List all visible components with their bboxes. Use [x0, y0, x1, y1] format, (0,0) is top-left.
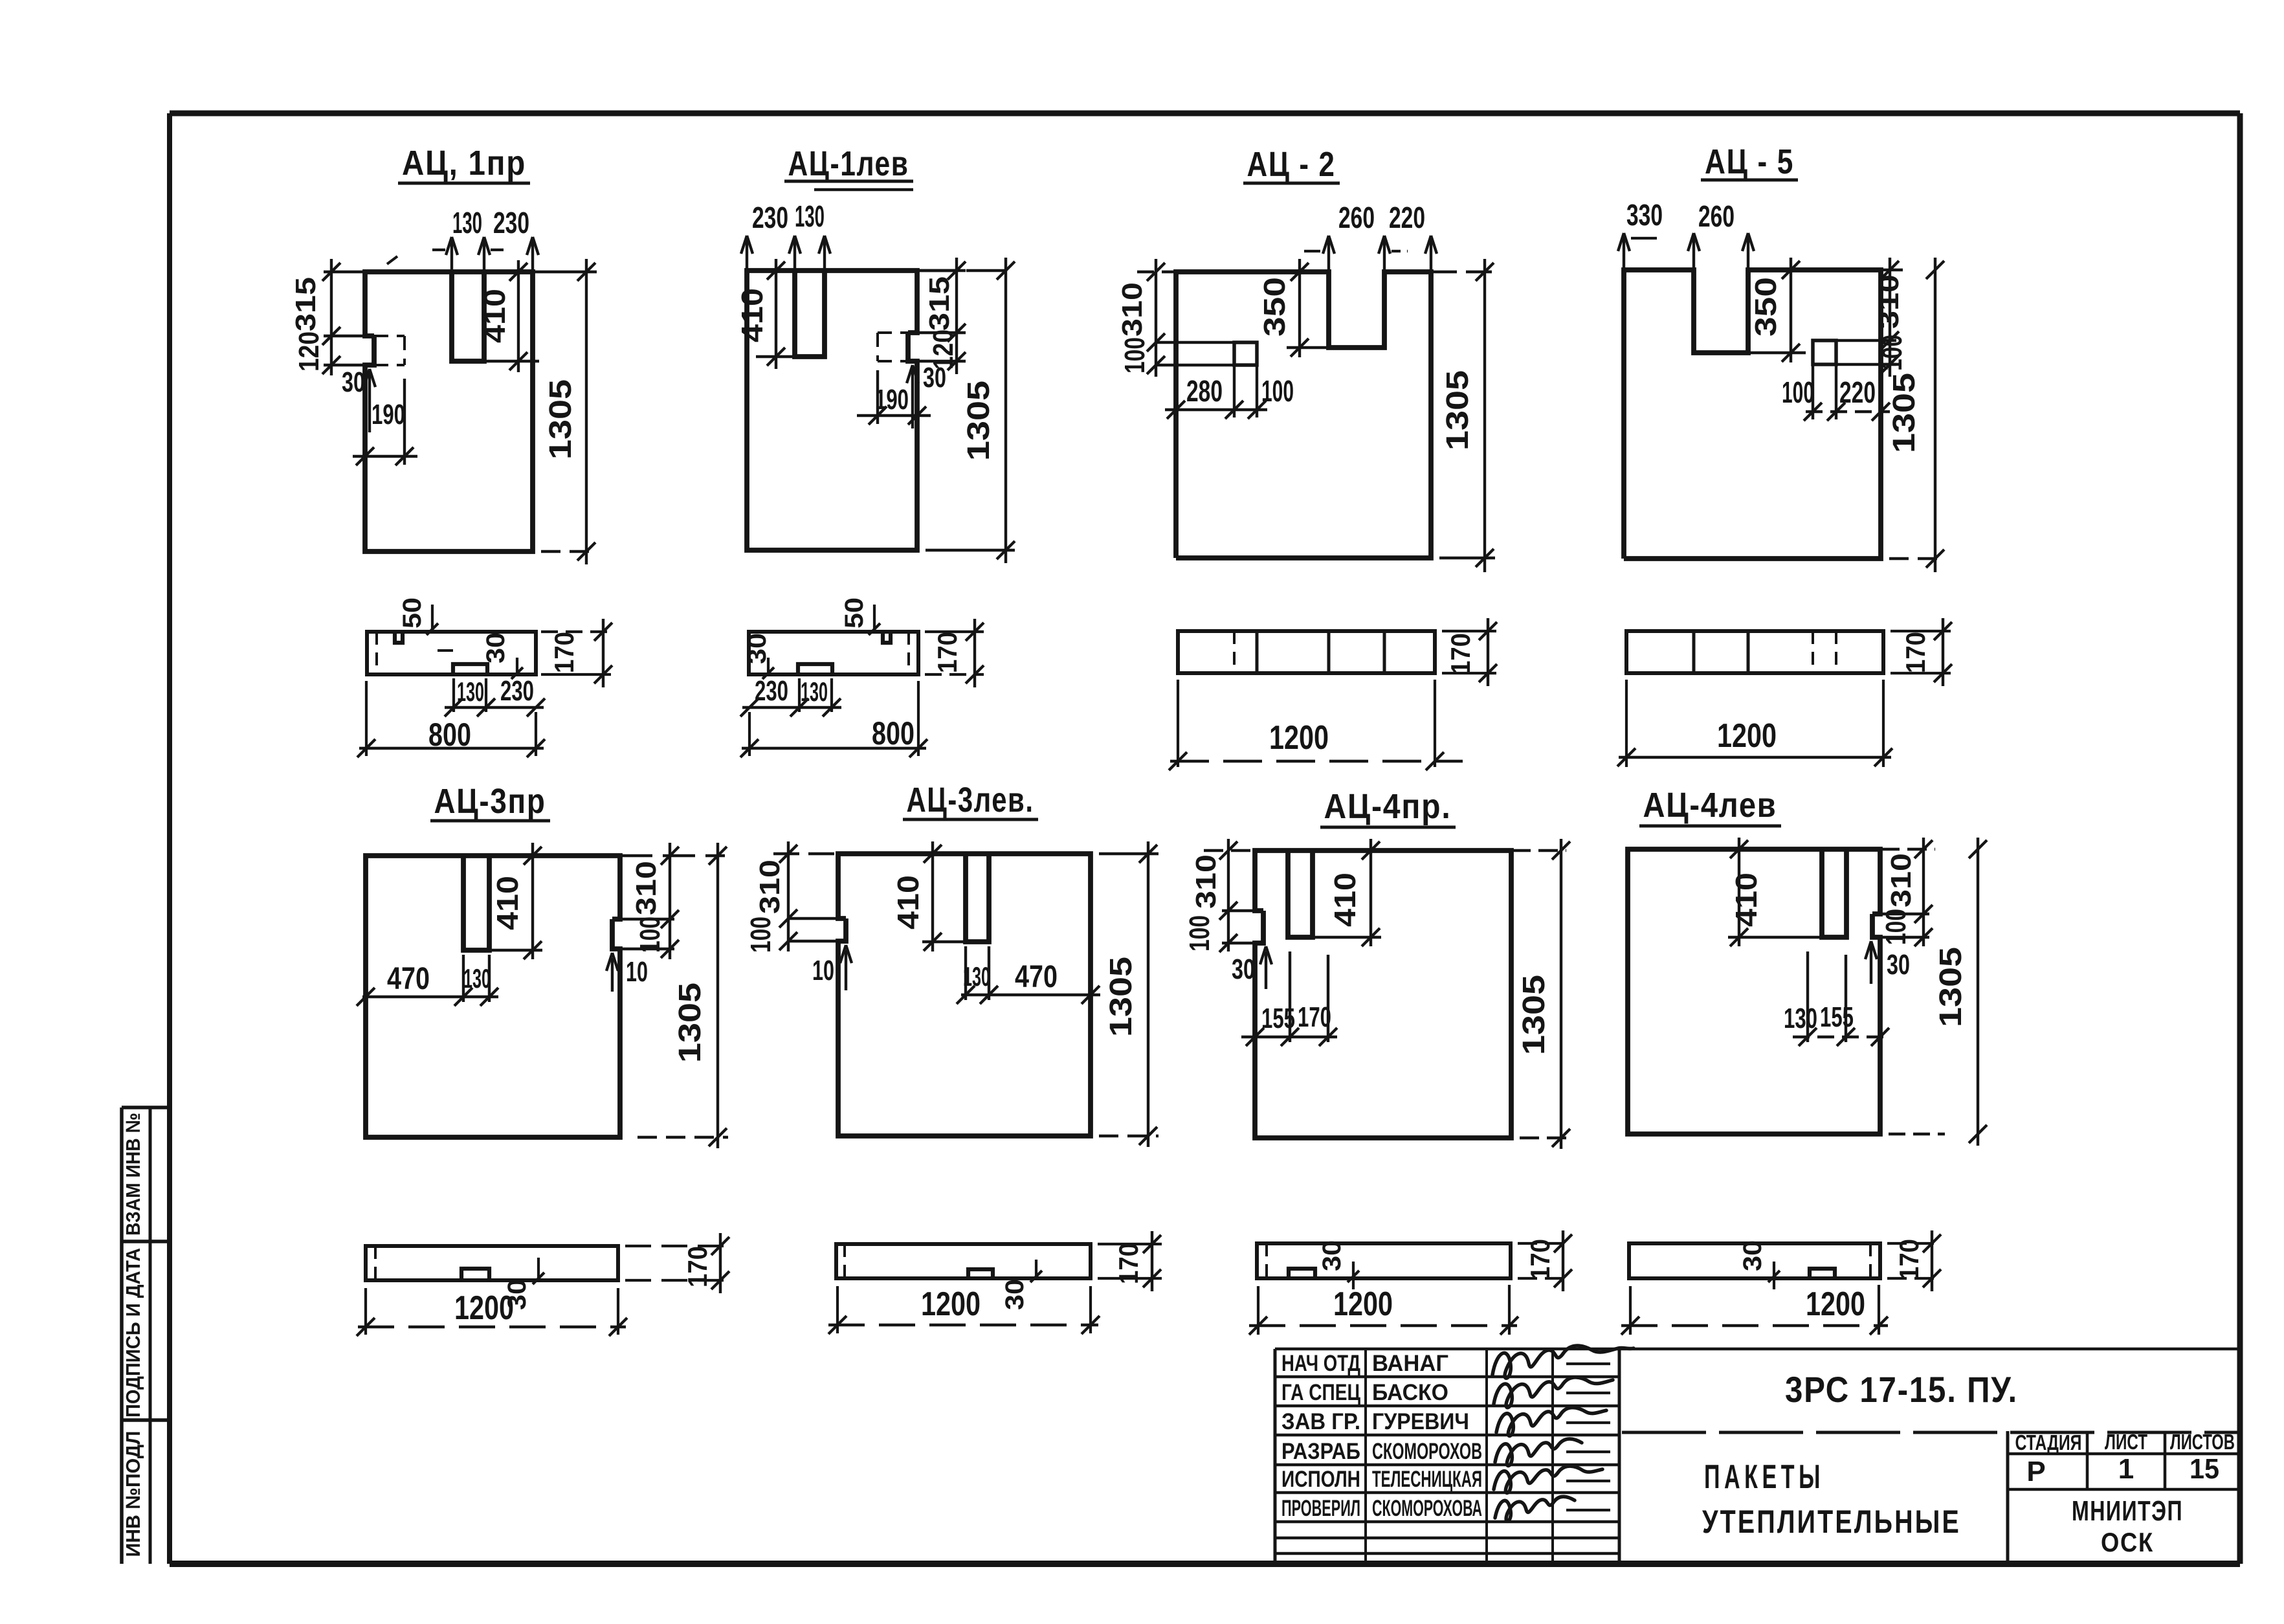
svg-text:220: 220	[1389, 201, 1425, 234]
dim 30 bar АЦ-3лев	[1001, 1260, 1042, 1310]
dim 310 100 left of АЦ-2	[1116, 259, 1234, 377]
dim 30 step АЦ-1лев	[907, 362, 946, 428]
svg-text:350: 350	[1258, 277, 1291, 337]
panel title АЦ-4лев	[1639, 786, 1781, 826]
signature squiggle row 2	[1494, 1377, 1613, 1408]
stage table values Р 1 15	[2026, 1453, 2219, 1487]
svg-text:УТЕПЛИТЕЛЬНЫЕ: УТЕПЛИТЕЛЬНЫЕ	[1702, 1504, 1961, 1540]
staff row НАЧ ОТД ВАНАГ	[1281, 1351, 1448, 1376]
svg-text:310: 310	[1190, 854, 1222, 909]
svg-text:190: 190	[875, 384, 909, 416]
svg-text:410: 410	[891, 875, 925, 929]
dim 10 notch АЦ-3пр	[606, 953, 648, 992]
panel АЦ-1лев hidden slot dashed	[878, 333, 908, 361]
svg-text:ТЕЛЕСНИЦКАЯ: ТЕЛЕСНИЦКАЯ	[1372, 1467, 1482, 1492]
svg-text:СКОМОРОХОВА: СКОМОРОХОВА	[1372, 1496, 1482, 1521]
svg-text:1200: 1200	[921, 1285, 981, 1323]
dim 170 bar АЦ-4пр	[1518, 1230, 1572, 1291]
svg-text:1305: 1305	[1441, 370, 1475, 450]
dim 100 220 below square АЦ-5	[1782, 364, 1890, 421]
svg-text:260: 260	[1338, 201, 1375, 234]
svg-text:350: 350	[1749, 277, 1782, 337]
panel title АЦ-5	[1701, 142, 1798, 181]
dim 1305 height АЦ-1пр	[533, 259, 597, 564]
svg-text:410: 410	[1328, 873, 1362, 927]
svg-text:130: 130	[795, 199, 825, 233]
svg-text:410: 410	[478, 289, 511, 343]
svg-text:1305: 1305	[1517, 975, 1551, 1055]
svg-text:ЛИСТОВ: ЛИСТОВ	[2170, 1430, 2235, 1454]
panel АЦ-4пр top slot	[1288, 851, 1313, 937]
stamp label ИНВ № ПОДЛ	[122, 1431, 144, 1557]
dim 30 notch АЦ-4пр	[1232, 946, 1272, 989]
dim 30 bar АЦ-4лев	[1738, 1240, 1780, 1289]
svg-text:ИСПОЛН: ИСПОЛН	[1281, 1467, 1360, 1492]
svg-text:ЛИСТ: ЛИСТ	[2105, 1430, 2147, 1454]
svg-text:30: 30	[342, 366, 365, 398]
dim 130 155 АЦ-4лев	[1784, 951, 1891, 1046]
dim 310 100 left notch АЦ-4пр	[1184, 839, 1263, 952]
dim 190 АЦ-1пр	[353, 379, 417, 465]
svg-text:170: 170	[1113, 1243, 1144, 1284]
bar АЦ-1лев side view 800x170	[749, 632, 918, 674]
dim 230 130 below bar АЦ-1лев	[740, 675, 841, 717]
svg-text:1305: 1305	[1934, 947, 1968, 1027]
panel АЦ-2 square hole 100x100	[1234, 342, 1257, 365]
svg-text:АЦ - 2: АЦ - 2	[1247, 145, 1336, 184]
dim 1200 below bar АЦ-2	[1169, 680, 1463, 770]
svg-text:190: 190	[371, 399, 405, 430]
svg-text:СКОМОРОХОВ: СКОМОРОХОВ	[1372, 1439, 1482, 1464]
svg-text:3РС 17-15. ПУ.: 3РС 17-15. ПУ.	[1785, 1369, 2018, 1410]
svg-text:170: 170	[682, 1246, 713, 1287]
dim 1305 height АЦ-5	[1887, 258, 1945, 572]
svg-text:130: 130	[457, 676, 484, 707]
signature squiggle row 6	[1495, 1496, 1575, 1521]
panel АЦ-5 outline with top notch	[1624, 270, 1881, 559]
dim 1305 height АЦ-1лев	[917, 258, 1015, 563]
dim 1305 height АЦ-3пр	[638, 843, 728, 1148]
title block staff table grid	[1275, 1349, 1619, 1564]
date dashes column	[1566, 1364, 1610, 1510]
signature squiggle row 5	[1494, 1466, 1602, 1493]
svg-text:30: 30	[743, 633, 771, 664]
dim 130 470 below slot АЦ-3лев	[957, 946, 1100, 1004]
svg-text:30: 30	[1318, 1240, 1346, 1271]
svg-text:АЦ-1лев: АЦ-1лев	[788, 144, 909, 183]
svg-text:310: 310	[1873, 274, 1905, 329]
svg-text:170: 170	[1298, 1001, 1331, 1033]
dim 30 bar АЦ-3пр	[503, 1258, 544, 1310]
panel АЦ-1пр outline with left notch	[365, 272, 533, 551]
dim 350 notch depth АЦ-2	[1258, 259, 1329, 357]
dim 50 bar АЦ-1пр	[398, 597, 438, 635]
svg-text:ОСК: ОСК	[2101, 1527, 2154, 1557]
svg-text:260: 260	[1698, 199, 1735, 233]
svg-text:30: 30	[482, 632, 510, 663]
dim 1200 below bar АЦ-3лев	[828, 1285, 1100, 1334]
svg-text:170: 170	[1894, 1239, 1924, 1280]
svg-text:1: 1	[2118, 1453, 2134, 1485]
svg-text:АЦ-3лев.: АЦ-3лев.	[907, 781, 1034, 819]
staff row ГА СПЕЦ БАСКО	[1281, 1380, 1448, 1405]
staff row ИСПОЛН ТЕЛЕСНИЦКАЯ	[1281, 1467, 1482, 1492]
panel АЦ-1лев outline with right notch	[747, 271, 917, 550]
dim 1200 below bar АЦ-3пр	[357, 1288, 627, 1336]
svg-text:ИНВ №ПОДЛ: ИНВ №ПОДЛ	[122, 1431, 144, 1557]
svg-text:10: 10	[626, 956, 648, 988]
dim 410 slot depth АЦ-1пр	[478, 260, 539, 372]
signature squiggle row 3	[1496, 1408, 1606, 1436]
dim 190 АЦ-1лев	[857, 370, 931, 425]
panel title АЦ, 1пр	[398, 144, 530, 183]
svg-text:315: 315	[924, 276, 955, 331]
svg-text:155: 155	[1261, 1003, 1295, 1034]
svg-text:800: 800	[428, 717, 471, 753]
panel АЦ-3лев top slot	[966, 854, 989, 942]
bar АЦ-4пр side view 1200x170	[1257, 1243, 1511, 1278]
svg-text:315: 315	[290, 277, 322, 331]
svg-text:РАЗРАБ: РАЗРАБ	[1281, 1439, 1360, 1464]
svg-text:470: 470	[387, 962, 430, 996]
dim 50 bar АЦ-1лев	[840, 597, 880, 635]
svg-text:100: 100	[1782, 375, 1814, 409]
svg-text:410: 410	[1729, 873, 1763, 927]
panel АЦ-4лев top slot	[1822, 849, 1846, 937]
staff row РАЗРАБ СКОМОРОХОВ	[1281, 1439, 1482, 1464]
svg-text:1305: 1305	[1887, 373, 1922, 453]
svg-text:1305: 1305	[673, 983, 707, 1063]
svg-text:410: 410	[735, 288, 769, 342]
dim 170 bar АЦ-2	[1442, 618, 1497, 686]
dim 30 step АЦ-1пр	[342, 366, 375, 432]
left margin stamp boxes	[122, 1107, 170, 1564]
svg-text:30: 30	[923, 362, 946, 394]
dim 30 bar АЦ-1лев	[743, 633, 774, 679]
svg-text:1200: 1200	[1717, 717, 1777, 755]
panel title АЦ-1лев	[784, 144, 913, 190]
stamp label ПОДПИСЬ И ДАТА	[122, 1248, 144, 1418]
svg-text:100: 100	[634, 917, 666, 953]
bar АЦ-3пр side view 1200x170	[366, 1246, 618, 1280]
svg-text:1305: 1305	[1104, 957, 1138, 1037]
svg-text:100: 100	[1880, 909, 1912, 945]
dim 30 notch АЦ-4лев	[1865, 941, 1910, 984]
svg-text:330: 330	[1626, 198, 1663, 232]
dim 1200 below bar АЦ-5	[1617, 680, 1892, 767]
dim 800 below bar АЦ-1лев	[740, 681, 927, 757]
svg-text:170: 170	[1900, 632, 1931, 673]
svg-text:310: 310	[1885, 853, 1917, 907]
panel АЦ-1пр hidden slot dashed	[374, 336, 405, 365]
svg-text:230: 230	[752, 201, 788, 234]
panel АЦ-1лев top slot	[795, 271, 825, 357]
dim 155 170 АЦ-4пр	[1241, 951, 1337, 1046]
svg-text:130: 130	[801, 676, 828, 707]
staff row ПРОВЕРИЛ СКОМОРОХОВА	[1281, 1496, 1482, 1521]
svg-text:310: 310	[754, 860, 786, 914]
svg-text:ВЗАМ ИНВ №: ВЗАМ ИНВ №	[122, 1113, 144, 1236]
panel АЦ-3пр outline with right notch	[366, 856, 620, 1137]
svg-text:Р: Р	[2026, 1456, 2045, 1487]
panel title АЦ-3пр	[430, 782, 550, 821]
dim 350 notch depth АЦ-5	[1748, 258, 1806, 362]
signature squiggle row 4	[1495, 1439, 1582, 1466]
dim 1200 below bar АЦ-4пр	[1249, 1285, 1518, 1335]
dim 410 slot depth АЦ-4пр	[1313, 839, 1381, 946]
svg-text:280: 280	[1186, 374, 1223, 408]
svg-text:100: 100	[1119, 337, 1151, 373]
bar АЦ-1пр side view 800x170	[367, 632, 536, 674]
svg-text:130: 130	[1784, 1003, 1817, 1034]
dim 1305 height АЦ-4пр	[1511, 839, 1573, 1149]
dim 230 130 above АЦ-1лев	[741, 199, 830, 271]
dim 260 220 above АЦ-2	[1304, 201, 1437, 272]
dim 1305 height АЦ-2	[1431, 259, 1495, 572]
staff row ЗАВ ГР. ГУРЕВИЧ	[1281, 1409, 1469, 1434]
svg-text:100: 100	[1876, 335, 1908, 371]
svg-text:БАСКО: БАСКО	[1372, 1380, 1448, 1405]
svg-text:100: 100	[1184, 915, 1215, 951]
svg-text:АЦ-4лев: АЦ-4лев	[1643, 786, 1777, 825]
svg-text:155: 155	[1820, 1001, 1854, 1033]
bar АЦ-3лев side view 1200x170	[836, 1244, 1091, 1278]
svg-text:1200: 1200	[1806, 1285, 1865, 1323]
dim 130 230 below bar АЦ-1пр	[445, 675, 545, 717]
svg-text:1305: 1305	[544, 379, 578, 460]
dim 800 below bar АЦ-1пр	[357, 681, 545, 757]
svg-text:ЗАВ ГР.: ЗАВ ГР.	[1281, 1409, 1360, 1434]
dim 170 bar АЦ-5	[1890, 618, 1952, 686]
svg-text:170: 170	[549, 632, 579, 673]
svg-text:АЦ - 5: АЦ - 5	[1705, 142, 1794, 181]
dim 470 130 below slot АЦ-3пр	[357, 955, 498, 1006]
svg-text:ПРОВЕРИЛ: ПРОВЕРИЛ	[1281, 1496, 1360, 1521]
dim 170 bar АЦ-1лев	[925, 619, 984, 687]
svg-text:170: 170	[1525, 1239, 1555, 1280]
svg-text:310: 310	[630, 861, 662, 915]
sheet name УТЕПЛИТЕЛЬНЫЕ	[1702, 1504, 1961, 1540]
sheet name ПАКЕТЫ	[1704, 1458, 1824, 1496]
svg-text:ГУРЕВИЧ: ГУРЕВИЧ	[1372, 1409, 1469, 1434]
svg-text:100: 100	[1261, 374, 1294, 408]
dim 10 notch АЦ-3лев	[812, 945, 852, 990]
panel АЦ-1пр top slot 130 wide	[452, 272, 484, 361]
dim 170 bar АЦ-1пр	[541, 619, 612, 687]
svg-text:ПОДПИСЬ И ДАТА: ПОДПИСЬ И ДАТА	[122, 1248, 144, 1418]
svg-text:ГА СПЕЦ: ГА СПЕЦ	[1281, 1380, 1360, 1405]
panel title АЦ-4пр.	[1320, 787, 1456, 827]
svg-text:800: 800	[872, 715, 915, 751]
svg-text:30: 30	[1738, 1240, 1767, 1271]
dim 1200 below bar АЦ-4лев	[1621, 1285, 1888, 1335]
dim 410 slot depth АЦ-4лев	[1728, 838, 1822, 946]
signature squiggle row 1	[1492, 1346, 1634, 1378]
svg-text:220: 220	[1839, 375, 1876, 409]
svg-text:170: 170	[932, 632, 962, 673]
dim 30 bar АЦ-1пр	[438, 632, 523, 679]
panel АЦ-2 outline with top notch	[1176, 272, 1431, 558]
svg-text:СТАДИЯ: СТАДИЯ	[2015, 1430, 2082, 1454]
svg-text:15: 15	[2190, 1453, 2219, 1485]
organization МНИИТЭП ОСК	[2072, 1495, 2183, 1557]
title block divider line	[1622, 1431, 2239, 1434]
bar АЦ-4лев side view 1200x170	[1629, 1243, 1880, 1278]
dim 330 260 above АЦ-5	[1618, 198, 1754, 270]
stage sheet table	[2008, 1431, 2240, 1564]
dim 170 bar АЦ-3лев	[1098, 1231, 1162, 1291]
dim 310 100 right notch АЦ-3пр	[612, 843, 725, 959]
svg-text:230: 230	[755, 675, 788, 707]
svg-text:230: 230	[493, 206, 529, 239]
dim 170 bar АЦ-4лев	[1887, 1230, 1942, 1291]
svg-text:ПАКЕТЫ: ПАКЕТЫ	[1704, 1458, 1824, 1496]
dim 310 100 right notch АЦ-4лев	[1872, 838, 1935, 946]
svg-text:АЦ-4пр.: АЦ-4пр.	[1324, 787, 1452, 826]
dim 310 100 left notch АЦ-3лев	[745, 841, 846, 953]
bar АЦ-5 side view 1200x170	[1626, 631, 1883, 673]
svg-text:470: 470	[1015, 960, 1058, 994]
panel АЦ-4пр outline with left notch	[1255, 851, 1511, 1138]
svg-text:1200: 1200	[454, 1289, 514, 1327]
stage table headers	[2015, 1430, 2235, 1454]
stamp label ВЗАМ ИНВ №	[122, 1113, 144, 1236]
svg-text:120: 120	[293, 331, 325, 372]
svg-text:130: 130	[463, 963, 491, 994]
svg-text:10: 10	[812, 955, 834, 986]
svg-text:410: 410	[491, 876, 524, 930]
panel title АЦ-2	[1243, 145, 1340, 184]
svg-text:АЦ, 1пр: АЦ, 1пр	[402, 144, 526, 183]
svg-text:30: 30	[1001, 1279, 1029, 1310]
dim 410 slot depth АЦ-1лев	[735, 259, 795, 369]
svg-text:МНИИТЭП: МНИИТЭП	[2072, 1495, 2183, 1527]
svg-text:1200: 1200	[1269, 719, 1329, 757]
svg-text:АЦ-3пр: АЦ-3пр	[434, 782, 546, 821]
panel АЦ-3лев outline with left notch	[838, 854, 1091, 1136]
dim 410 slot depth АЦ-3лев	[891, 841, 966, 951]
panel АЦ-5 square hole	[1813, 340, 1836, 364]
dim 30 bar АЦ-4пр	[1318, 1240, 1359, 1289]
dim 1305 height АЦ-3лев	[1099, 841, 1159, 1147]
dim 280 100 below square АЦ-2	[1165, 365, 1294, 419]
dim 170 bar АЦ-3пр	[625, 1233, 729, 1293]
dim 130 230 above АЦ-1пр	[432, 206, 538, 272]
svg-text:50: 50	[398, 597, 427, 628]
svg-text:НАЧ ОТД: НАЧ ОТД	[1281, 1351, 1360, 1376]
dim 1305 height АЦ-4лев	[1889, 838, 1987, 1146]
dim 310 100 right of АЦ-5	[1836, 258, 1908, 377]
svg-text:30: 30	[1887, 949, 1910, 981]
svg-text:130: 130	[452, 206, 482, 239]
dim 315 and 120 left of АЦ-1пр	[290, 256, 397, 375]
svg-text:1305: 1305	[962, 381, 996, 461]
svg-text:30: 30	[1232, 953, 1255, 985]
svg-text:50: 50	[840, 597, 869, 628]
svg-text:ВАНАГ: ВАНАГ	[1372, 1351, 1448, 1376]
bar АЦ-2 side view 1200x170	[1178, 631, 1435, 673]
svg-text:310: 310	[1116, 282, 1148, 337]
dim 410 slot depth АЦ-3пр	[489, 843, 542, 959]
panel АЦ-4лев outline with right notch	[1628, 849, 1880, 1134]
svg-text:230: 230	[500, 675, 534, 707]
svg-text:170: 170	[1445, 633, 1476, 674]
document code 3РС 17-15. ПУ.	[1785, 1369, 2018, 1410]
panel АЦ-3пр top slot	[463, 856, 489, 950]
svg-text:1200: 1200	[1333, 1285, 1393, 1323]
dim 315 120 right of АЦ-1лев	[908, 258, 966, 374]
title block top border	[1275, 1348, 2239, 1351]
svg-text:100: 100	[745, 917, 777, 953]
panel title АЦ-3лев.	[903, 781, 1038, 819]
svg-text:130: 130	[963, 961, 990, 992]
